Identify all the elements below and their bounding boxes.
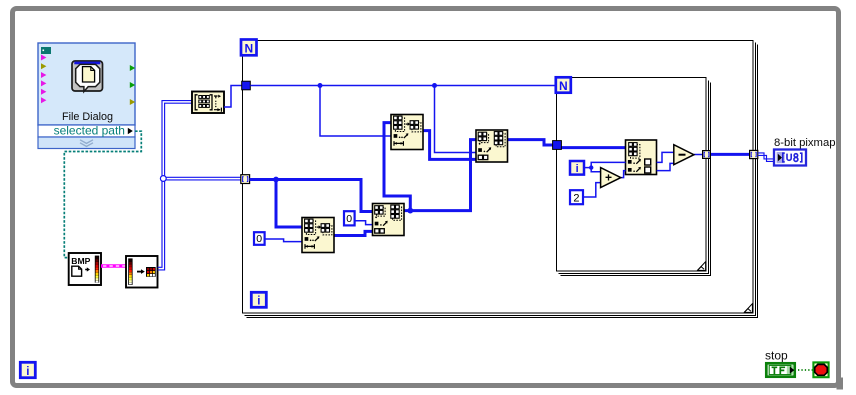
svg-text:8-bit pixmap: 8-bit pixmap [774,137,836,149]
svg-text:i: i [576,163,579,175]
svg-text:0: 0 [256,233,262,245]
svg-text:File Dialog: File Dialog [62,111,113,123]
svg-text:BMP: BMP [71,256,90,266]
svg-text:+: + [605,171,612,185]
svg-text:stop: stop [765,349,788,363]
svg-text:0: 0 [346,213,352,225]
svg-text:i: i [257,296,260,308]
svg-text:N: N [559,79,568,93]
svg-text:i: i [26,366,29,378]
svg-text:2: 2 [573,192,579,204]
svg-text:N: N [244,41,253,55]
svg-text:selected path: selected path [54,124,125,138]
